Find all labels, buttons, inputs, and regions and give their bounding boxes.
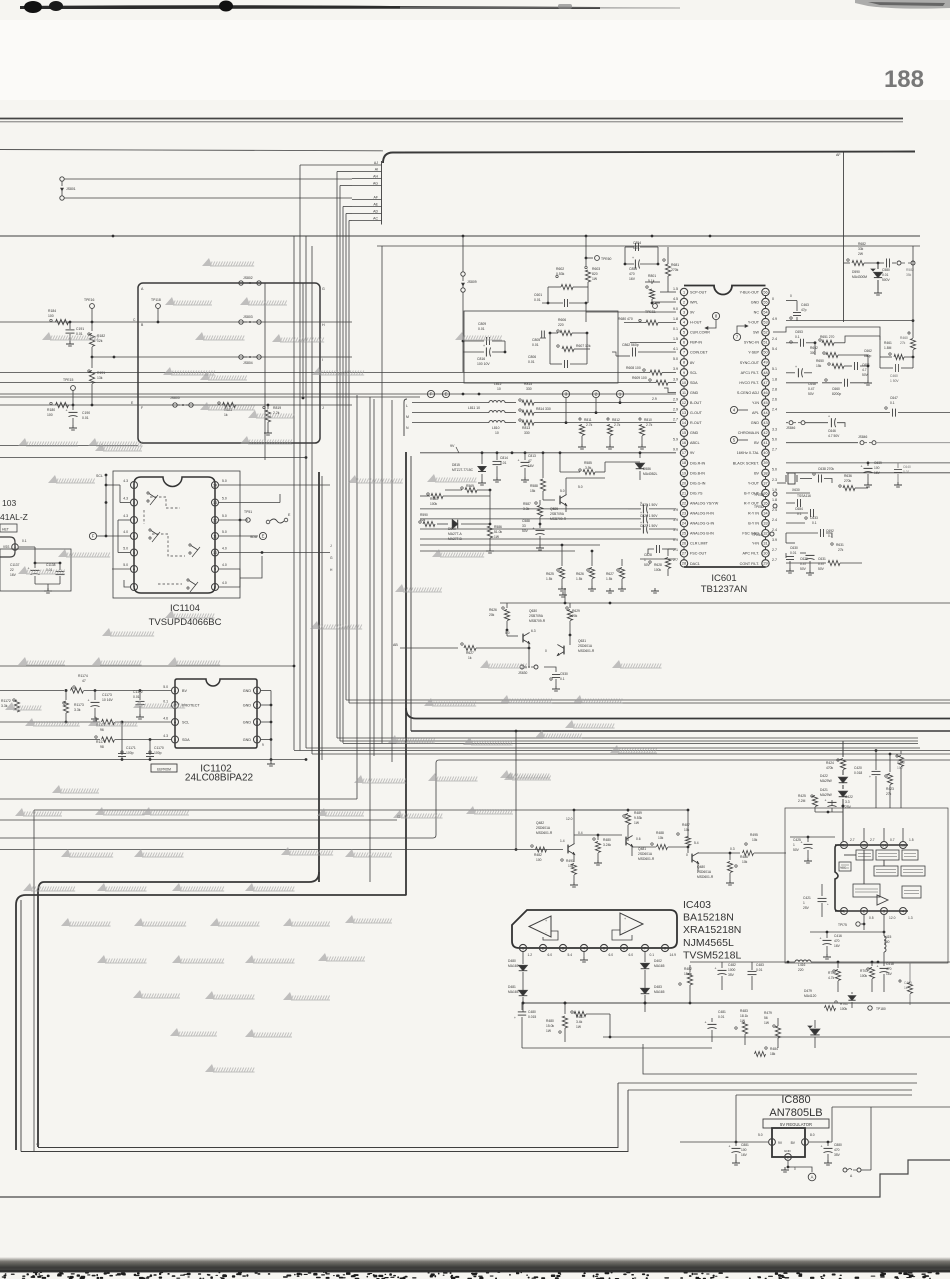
svg-text:L811 10: L811 10: [468, 406, 480, 410]
svg-text:3.24k: 3.24k: [603, 843, 611, 847]
wires mid: [609, 1014, 611, 1037]
svg-text:0: 0: [790, 294, 792, 298]
svg-text:R682: R682: [858, 242, 866, 246]
svg-text:IC403: IC403: [683, 899, 711, 911]
svg-text:15.0k: 15.0k: [546, 1024, 554, 1028]
svg-text:0.1: 0.1: [650, 953, 655, 957]
svg-text:270k: 270k: [844, 479, 852, 483]
connector JS809: [462, 236, 464, 272]
wire: [302, 397, 304, 399]
IC403 body: [512, 910, 677, 948]
svg-text:SDA: SDA: [690, 381, 698, 385]
svg-text:17: 17: [682, 451, 686, 455]
svg-text:2SD601A: 2SD601A: [697, 870, 712, 874]
svg-text:D590: D590: [852, 270, 860, 274]
svg-text:16V: 16V: [874, 471, 881, 475]
svg-text:10k: 10k: [742, 860, 748, 864]
svg-text:2.9: 2.9: [673, 397, 678, 401]
svg-text:43: 43: [763, 421, 767, 425]
svg-text:GND: GND: [690, 431, 699, 435]
svg-text:9: 9: [683, 371, 685, 375]
svg-text:Q630: Q630: [529, 609, 537, 613]
svg-text:G: G: [322, 287, 325, 291]
svg-text:31: 31: [763, 542, 767, 546]
wire row 1048: [521, 1026, 523, 1048]
wire pin10: [219, 552, 330, 554]
svg-text:DIG.B-IN: DIG.B-IN: [690, 471, 705, 475]
svg-text:R486: R486: [740, 855, 748, 859]
svg-text:Y-OUT: Y-OUT: [748, 481, 760, 485]
svg-text:R480: R480: [603, 838, 611, 842]
svg-text:16V: 16V: [834, 944, 841, 948]
bold vertical bus: [318, 472, 320, 882]
svg-text:1.5k: 1.5k: [606, 577, 613, 581]
svg-text:+: +: [533, 527, 535, 531]
IC601 left pins: [683, 296, 685, 299]
svg-text:+: +: [828, 415, 830, 419]
svg-text:R425: R425: [798, 794, 806, 798]
svg-text:R482: R482: [534, 853, 542, 857]
svg-text:1.8: 1.8: [772, 377, 777, 381]
IC402 inner wires: [843, 850, 845, 906]
svg-text:Y-OUT: Y-OUT: [748, 321, 760, 325]
svg-text:2.8: 2.8: [772, 387, 777, 391]
analog input feed lines: [420, 508, 628, 510]
svg-text:20: 20: [682, 481, 686, 485]
svg-text:27k: 27k: [838, 548, 844, 552]
svg-text:APL: APL: [752, 411, 759, 415]
op-amp B feedback: [612, 930, 632, 940]
svg-text:H-OUT: H-OUT: [690, 321, 702, 325]
svg-text:7: 7: [644, 946, 646, 950]
crystal X630: [786, 472, 950, 474]
svg-text:0.53k: 0.53k: [556, 272, 565, 276]
svg-text:R812: R812: [612, 418, 620, 422]
svg-text:Q481: Q481: [638, 847, 646, 851]
svg-text:188: 188: [884, 66, 924, 93]
IC402 outer box: [785, 808, 948, 963]
svg-text:C881: C881: [741, 1143, 749, 1147]
capacitor C646: [805, 422, 828, 424]
svg-text:AI: AI: [375, 168, 378, 172]
svg-text:TP118: TP118: [151, 298, 161, 302]
svg-text:D479: D479: [804, 989, 812, 993]
svg-text:C630: C630: [790, 546, 798, 550]
svg-text:BV: BV: [754, 441, 759, 445]
svg-text:AF: AF: [36, 1142, 40, 1146]
svg-text:1.5k: 1.5k: [546, 577, 553, 581]
bottom left frame: [38, 1083, 618, 1148]
svg-text:27: 27: [682, 552, 686, 556]
svg-text:C421: C421: [803, 896, 811, 900]
svg-text:C809: C809: [478, 322, 486, 326]
svg-text:0.01: 0.01: [903, 470, 910, 474]
wire clr: [630, 538, 676, 540]
wire row 760 left: [0, 759, 306, 761]
svg-text:50: 50: [763, 351, 767, 355]
svg-text:2.3: 2.3: [772, 478, 777, 482]
svg-text:JS801: JS801: [66, 187, 76, 191]
node E: [442, 390, 449, 397]
top scan edge: [20, 5, 600, 9]
resistor R823: [218, 402, 220, 404]
capacitor C828: [662, 548, 676, 550]
svg-text:5.0: 5.0: [163, 685, 168, 689]
svg-text:16: 16: [842, 843, 846, 847]
resistor R602: [556, 275, 558, 277]
svg-text:GND: GND: [243, 738, 252, 742]
svg-text:C813: C813: [528, 454, 536, 458]
svg-text:0: 0: [794, 1167, 796, 1171]
IC1102 pins right: [254, 687, 261, 694]
svg-text:VSS: VSS: [3, 545, 9, 549]
svg-text:2.6: 2.6: [772, 397, 777, 401]
svg-text:5.0: 5.0: [222, 530, 227, 534]
svg-text:+: +: [820, 937, 822, 941]
svg-text:5.0: 5.0: [758, 1133, 763, 1137]
svg-text:1.2: 1.2: [528, 953, 533, 957]
svg-text:5.1: 5.1: [772, 367, 777, 371]
svg-text:BLACK SCRET.: BLACK SCRET.: [733, 461, 759, 465]
sub box C809 region: [464, 311, 618, 383]
wire pin52 SW: [773, 327, 880, 340]
svg-text:4.3: 4.3: [123, 479, 128, 483]
svg-text:0.01: 0.01: [532, 343, 539, 347]
svg-text:R460: R460: [900, 336, 908, 340]
svg-text:BV: BV: [182, 689, 187, 693]
svg-text:0.47: 0.47: [818, 562, 825, 566]
svg-text:C806: C806: [528, 355, 536, 359]
svg-text:0.018: 0.018: [854, 771, 862, 775]
wire row B-H: [0, 321, 352, 323]
svg-text:4.0: 4.0: [123, 530, 128, 534]
svg-text:5.0: 5.0: [560, 489, 565, 493]
pin11 gnd: [664, 388, 676, 393]
svg-text:3.3k: 3.3k: [1, 704, 8, 708]
bold bus wire top: [383, 152, 915, 164]
svg-text:+: +: [88, 699, 90, 703]
svg-text:470: 470: [834, 1148, 840, 1152]
capacitor C855: [634, 260, 636, 269]
svg-text:+: +: [705, 1021, 707, 1025]
svg-text:4: 4: [683, 321, 685, 325]
svg-text:C1173: C1173: [102, 693, 112, 697]
svg-text:47: 47: [763, 381, 767, 385]
svg-text:TPE52: TPE52: [754, 505, 764, 509]
jump ref 4: [730, 406, 737, 413]
svg-text:9: 9: [214, 567, 216, 571]
svg-text:D402: D402: [654, 959, 662, 963]
svg-text:C1170: C1170: [154, 746, 164, 750]
svg-text:2.4: 2.4: [772, 407, 777, 411]
svg-text:JS846: JS846: [858, 435, 868, 439]
svg-text:+: +: [861, 465, 863, 469]
svg-text:42: 42: [763, 431, 767, 435]
resistor R184: [50, 319, 52, 321]
svg-text:8: 8: [174, 689, 176, 693]
svg-text:+: +: [801, 841, 803, 845]
resistor R180: [50, 402, 52, 404]
svg-text:0: 0: [545, 649, 547, 653]
svg-text:1: 1: [793, 843, 795, 847]
svg-text:27k: 27k: [900, 341, 906, 345]
wire top: [500, 602, 950, 604]
svg-text:JS630: JS630: [518, 671, 528, 675]
wire main 1003: [522, 1002, 950, 1004]
svg-text:TPE54: TPE54: [752, 533, 762, 537]
bold bottom bus: [16, 895, 407, 1150]
wire row 458: [0, 457, 307, 459]
svg-text:APC FILT.: APC FILT.: [742, 552, 759, 556]
svg-text:TPI75: TPI75: [838, 923, 847, 927]
svg-text:C826 1 50V: C826 1 50V: [640, 514, 658, 518]
svg-text:MA4300M: MA4300M: [852, 275, 867, 279]
svg-text:1.4: 1.4: [560, 839, 565, 843]
svg-text:5.0: 5.0: [772, 468, 777, 472]
svg-text:46: 46: [763, 391, 767, 395]
connector JS803: [239, 320, 243, 324]
svg-text:AH: AH: [373, 175, 378, 179]
svg-text:5.0: 5.0: [222, 514, 227, 518]
svg-text:37: 37: [763, 481, 767, 485]
node F: [427, 390, 434, 397]
svg-text:1 50V: 1 50V: [890, 379, 899, 383]
svg-text:C633: C633: [810, 516, 818, 520]
svg-text:C420: C420: [854, 766, 862, 770]
svg-text:96: 96: [100, 728, 104, 732]
svg-text:R482: R482: [684, 967, 692, 971]
svg-text:54: 54: [763, 310, 767, 314]
svg-text:10: 10: [682, 381, 686, 385]
svg-text:24: 24: [682, 522, 686, 526]
svg-text:2.4: 2.4: [772, 518, 777, 522]
wire pins 1-3: [660, 291, 676, 293]
svg-text:R810: R810: [644, 418, 652, 422]
svg-text:16KHz X-TAL: 16KHz X-TAL: [737, 451, 759, 455]
svg-text:820: 820: [592, 272, 598, 276]
svg-text:GND: GND: [243, 689, 252, 693]
svg-text:F: F: [92, 534, 95, 539]
svg-text:MA165: MA165: [508, 990, 519, 994]
svg-text:20k: 20k: [489, 613, 495, 617]
wire cont: [785, 533, 787, 543]
svg-text:3.9: 3.9: [772, 538, 777, 542]
svg-text:0.01: 0.01: [756, 968, 763, 972]
svg-text:2.9: 2.9: [673, 407, 678, 411]
svg-text:+: +: [624, 917, 626, 921]
svg-text:30: 30: [763, 552, 767, 556]
svg-text:5.0: 5.0: [673, 357, 678, 361]
svg-text:100: 100: [48, 314, 54, 318]
svg-text:10k: 10k: [684, 828, 690, 832]
svg-text:2.2M: 2.2M: [798, 799, 806, 803]
svg-text:R180: R180: [47, 408, 55, 412]
svg-text:29: 29: [763, 562, 767, 566]
jump ref 7: [733, 333, 740, 340]
svg-text:4.3: 4.3: [123, 497, 128, 501]
svg-text:48: 48: [763, 371, 767, 375]
svg-text:R1173: R1173: [74, 703, 84, 707]
svg-text:WPL: WPL: [690, 300, 698, 304]
svg-text:MA29W: MA29W: [820, 779, 833, 783]
svg-text:9V: 9V: [690, 311, 695, 315]
svg-text:C816: C816: [477, 357, 485, 361]
svg-text:3.4k: 3.4k: [576, 1020, 583, 1024]
IC1104 internal switches: [147, 492, 149, 494]
svg-text:3: 3: [562, 946, 564, 950]
svg-text:1.8M: 1.8M: [884, 346, 892, 350]
svg-text:56: 56: [763, 290, 767, 294]
svg-text:AF: AF: [374, 196, 378, 200]
svg-text:0.01: 0.01: [82, 416, 89, 420]
wire row E-J: [0, 404, 352, 406]
svg-text:500V: 500V: [882, 278, 891, 282]
svg-text:R495: R495: [750, 833, 758, 837]
wire row 666: [0, 665, 294, 667]
node AF frame: [843, 151, 845, 322]
svg-text:R607 10k: R607 10k: [576, 344, 591, 348]
svg-text:0.1: 0.1: [560, 677, 565, 681]
svg-text:Y-SEP: Y-SEP: [748, 351, 759, 355]
wire pin2: [787, 1161, 789, 1167]
svg-text:D483: D483: [654, 985, 662, 989]
svg-text:C640: C640: [903, 465, 911, 469]
connector JS630: [528, 648, 530, 667]
wire pin44 APL: [786, 412, 880, 414]
svg-text:JS809: JS809: [467, 280, 477, 284]
svg-text:C653: C653: [795, 330, 803, 334]
svg-text:2.7: 2.7: [772, 448, 777, 452]
svg-text:R585: R585: [584, 461, 592, 465]
svg-text:2: 2: [787, 1155, 789, 1159]
svg-text:TB1237AN: TB1237AN: [701, 584, 748, 595]
svg-text:15k: 15k: [816, 364, 822, 368]
svg-text:R483: R483: [740, 1009, 748, 1013]
svg-text:+: +: [795, 365, 797, 369]
svg-text:4.0: 4.0: [222, 581, 227, 585]
svg-text:E: E: [262, 534, 265, 539]
svg-text:10: 10: [497, 387, 501, 391]
mid horizontal buses: [346, 699, 950, 701]
svg-text:AJ: AJ: [374, 161, 378, 165]
svg-text:C588: C588: [522, 519, 530, 523]
svg-text:+: +: [821, 1145, 823, 1149]
svg-text:HVCO FILT.: HVCO FILT.: [739, 381, 759, 385]
svg-text:CONT FILT.: CONT FILT.: [740, 562, 759, 566]
svg-text:1.9: 1.9: [772, 488, 777, 492]
svg-text:12.0: 12.0: [566, 817, 573, 821]
svg-text:0.01: 0.01: [534, 298, 541, 302]
svg-text:S-CENO ADJ: S-CENO ADJ: [737, 391, 759, 395]
jump circles 3 2 1: [562, 390, 569, 397]
svg-text:ANALOG B-IN: ANALOG B-IN: [690, 532, 714, 536]
svg-text:+: +: [518, 459, 520, 463]
svg-text:9: 9: [262, 743, 264, 747]
svg-text:10: 10: [495, 431, 499, 435]
svg-text:18k: 18k: [770, 1052, 776, 1056]
svg-text:CHROMA-IN: CHROMA-IN: [738, 431, 760, 435]
svg-text:13: 13: [682, 411, 686, 415]
svg-text:5: 5: [603, 946, 605, 950]
svg-text:470k: 470k: [826, 766, 834, 770]
svg-text:1k: 1k: [904, 986, 908, 990]
svg-text:1: 1: [683, 290, 685, 294]
svg-text:4.7k: 4.7k: [828, 976, 835, 980]
svg-text:MSD601-R: MSD601-R: [697, 875, 714, 879]
svg-text:22: 22: [682, 501, 686, 505]
svg-text:C480: C480: [528, 1010, 536, 1014]
svg-text:0.1: 0.1: [890, 401, 895, 405]
op-amp A feedback: [543, 931, 558, 940]
svg-text:16V: 16V: [10, 573, 17, 577]
svg-text:C601: C601: [534, 293, 542, 297]
svg-text:4.9: 4.9: [772, 317, 777, 321]
svg-text:COIN.DET: COIN.DET: [690, 351, 708, 355]
svg-text:5V REGULATOR: 5V REGULATOR: [780, 1122, 812, 1127]
svg-text:100k: 100k: [860, 974, 868, 978]
svg-text:TPE60: TPE60: [601, 257, 611, 261]
svg-text:39: 39: [763, 461, 767, 465]
svg-text:C662: C662: [864, 349, 872, 353]
svg-text:+: +: [514, 1016, 516, 1020]
svg-text:4.1: 4.1: [673, 347, 678, 351]
svg-text:4: 4: [583, 946, 585, 950]
svg-text:TP180: TP180: [876, 1007, 886, 1011]
test point TPE16: [90, 304, 95, 309]
svg-text:10 16V: 10 16V: [102, 698, 113, 702]
svg-text:1.3: 1.3: [908, 916, 913, 920]
connector JS805: [173, 403, 177, 407]
svg-text:0.01: 0.01: [478, 327, 485, 331]
svg-text:SCP-OUT: SCP-OUT: [690, 290, 707, 294]
resistor R603: [585, 258, 587, 266]
svg-text:1.5k: 1.5k: [576, 577, 583, 581]
svg-text:+: +: [640, 501, 642, 505]
svg-text:Q631: Q631: [578, 639, 586, 643]
svg-text:9V: 9V: [450, 444, 455, 448]
connector JS801: [60, 177, 64, 181]
svg-text:220: 220: [558, 323, 564, 327]
svg-text:C190: C190: [82, 411, 90, 415]
svg-text:33k: 33k: [858, 247, 864, 251]
IC1104 body: [134, 477, 215, 593]
svg-text:C463: C463: [801, 303, 809, 307]
svg-text:R602: R602: [556, 267, 564, 271]
svg-text:50V: 50V: [808, 392, 815, 396]
svg-text:4.3: 4.3: [123, 514, 128, 518]
svg-text:680p: 680p: [864, 354, 872, 358]
svg-text:L415: L415: [884, 935, 892, 939]
svg-text:MA29W: MA29W: [820, 793, 833, 797]
svg-text:D422: D422: [820, 774, 828, 778]
svg-text:R626: R626: [489, 608, 497, 612]
svg-text:+: +: [640, 511, 642, 515]
wires left pins: [118, 519, 130, 521]
svg-text:2: 2: [542, 946, 544, 950]
svg-text:+: +: [66, 409, 68, 413]
svg-text:50V: 50V: [818, 567, 825, 571]
svg-text:1k: 1k: [224, 413, 228, 417]
svg-text:C631: C631: [818, 557, 826, 561]
svg-text:35k: 35k: [906, 273, 912, 277]
svg-text:C651: C651: [862, 363, 870, 367]
pin4 gnd: [583, 952, 585, 957]
node A circle: [808, 1173, 816, 1181]
svg-text:DIG.G-IN: DIG.G-IN: [690, 481, 706, 485]
scan hatch artifacts (decorative): [202, 258, 254, 266]
IC403 pins: [519, 944, 526, 951]
svg-text:5.4: 5.4: [694, 841, 699, 845]
